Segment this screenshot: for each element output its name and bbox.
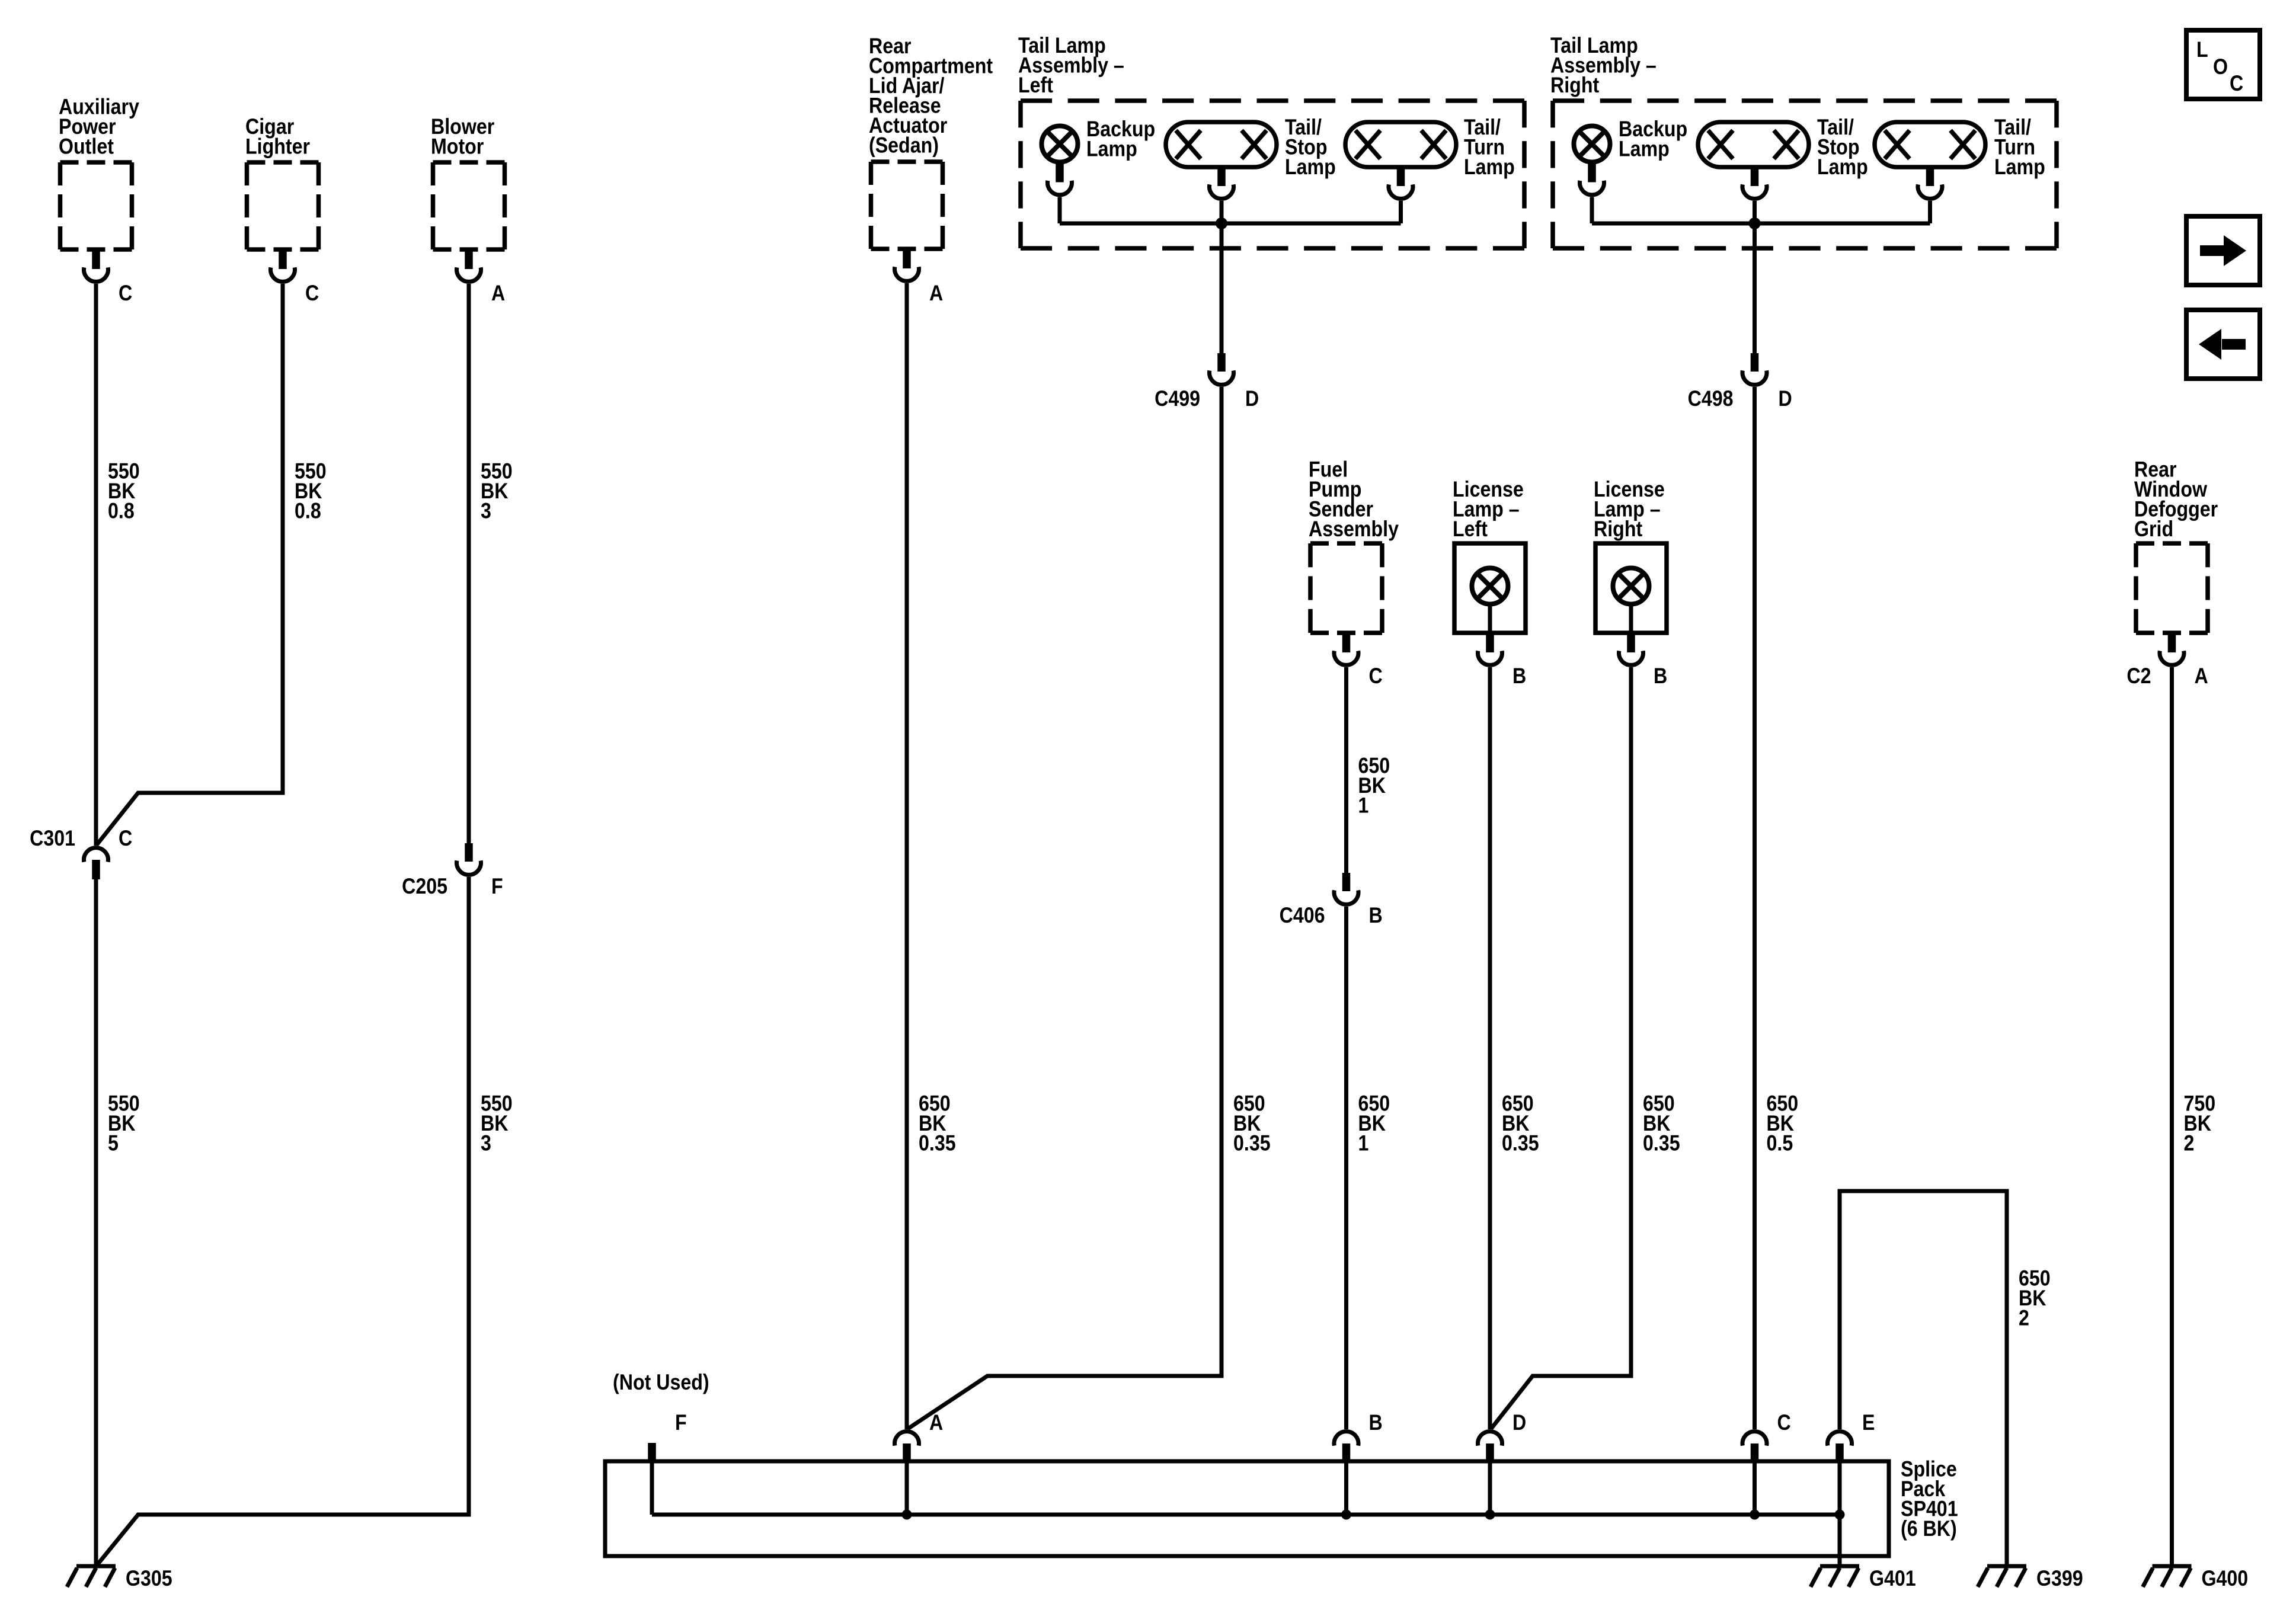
svg-text:A: A <box>929 1411 943 1435</box>
svg-text:Lamp: Lamp <box>1994 155 2045 180</box>
svg-text:C499: C499 <box>1155 387 1200 411</box>
svg-text:F: F <box>675 1411 687 1435</box>
svg-text:G400: G400 <box>2202 1567 2249 1591</box>
svg-text:B: B <box>1512 664 1526 689</box>
svg-text:Lamp: Lamp <box>1086 137 1137 161</box>
svg-text:A: A <box>491 281 505 306</box>
svg-text:Lighter: Lighter <box>245 135 310 159</box>
svg-text:5: 5 <box>108 1131 119 1156</box>
svg-text:0.8: 0.8 <box>108 499 135 523</box>
svg-text:Lamp: Lamp <box>1464 155 1515 180</box>
svg-text:(6 BK): (6 BK) <box>1901 1517 1957 1541</box>
svg-text:Assembly: Assembly <box>1309 517 1399 542</box>
svg-text:Right: Right <box>1550 73 1600 98</box>
svg-text:Lamp: Lamp <box>1817 155 1868 180</box>
svg-text:Lamp: Lamp <box>1619 137 1670 161</box>
svg-text:D: D <box>1245 387 1259 411</box>
svg-text:C205: C205 <box>402 875 447 899</box>
svg-text:B: B <box>1369 1411 1383 1435</box>
svg-text:A: A <box>2195 664 2208 689</box>
svg-text:C: C <box>119 281 132 306</box>
svg-text:1: 1 <box>1358 1131 1369 1156</box>
svg-text:C498: C498 <box>1688 387 1734 411</box>
svg-text:0.35: 0.35 <box>1643 1131 1680 1156</box>
svg-text:C: C <box>119 827 132 851</box>
svg-text:D: D <box>1512 1411 1526 1435</box>
svg-text:Right: Right <box>1594 517 1643 542</box>
svg-text:1: 1 <box>1358 793 1369 818</box>
svg-text:(Sedan): (Sedan) <box>869 133 939 158</box>
svg-text:Left: Left <box>1018 73 1053 98</box>
svg-text:Lamp: Lamp <box>1285 155 1336 180</box>
svg-text:C: C <box>2230 72 2243 96</box>
svg-text:L: L <box>2196 38 2208 62</box>
svg-text:Outlet: Outlet <box>59 135 114 159</box>
svg-text:C: C <box>305 281 319 306</box>
svg-text:G399: G399 <box>2036 1567 2083 1591</box>
svg-text:0.35: 0.35 <box>1502 1131 1539 1156</box>
svg-text:D: D <box>1779 387 1792 411</box>
svg-text:G401: G401 <box>1869 1567 1916 1591</box>
svg-text:0.5: 0.5 <box>1767 1131 1793 1156</box>
svg-text:B: B <box>1369 904 1383 928</box>
svg-text:C: C <box>1369 664 1383 689</box>
svg-text:C2: C2 <box>2126 664 2151 689</box>
svg-text:(Not Used): (Not Used) <box>613 1371 709 1395</box>
svg-text:Grid: Grid <box>2134 517 2173 542</box>
svg-text:2: 2 <box>2184 1131 2195 1156</box>
svg-text:2: 2 <box>2019 1306 2029 1330</box>
svg-text:G305: G305 <box>126 1567 172 1591</box>
svg-text:C406: C406 <box>1280 904 1325 928</box>
svg-text:Left: Left <box>1453 517 1488 542</box>
svg-text:A: A <box>929 281 943 306</box>
svg-text:3: 3 <box>481 1131 491 1156</box>
svg-text:Motor: Motor <box>431 135 484 159</box>
svg-text:0.8: 0.8 <box>295 499 321 523</box>
svg-text:C: C <box>1777 1411 1791 1435</box>
svg-text:B: B <box>1654 664 1667 689</box>
svg-text:C301: C301 <box>30 827 75 851</box>
svg-text:3: 3 <box>481 499 491 523</box>
svg-text:0.35: 0.35 <box>919 1131 956 1156</box>
svg-text:E: E <box>1862 1411 1875 1435</box>
svg-text:O: O <box>2213 55 2228 79</box>
svg-text:F: F <box>491 875 503 899</box>
svg-text:0.35: 0.35 <box>1233 1131 1271 1156</box>
